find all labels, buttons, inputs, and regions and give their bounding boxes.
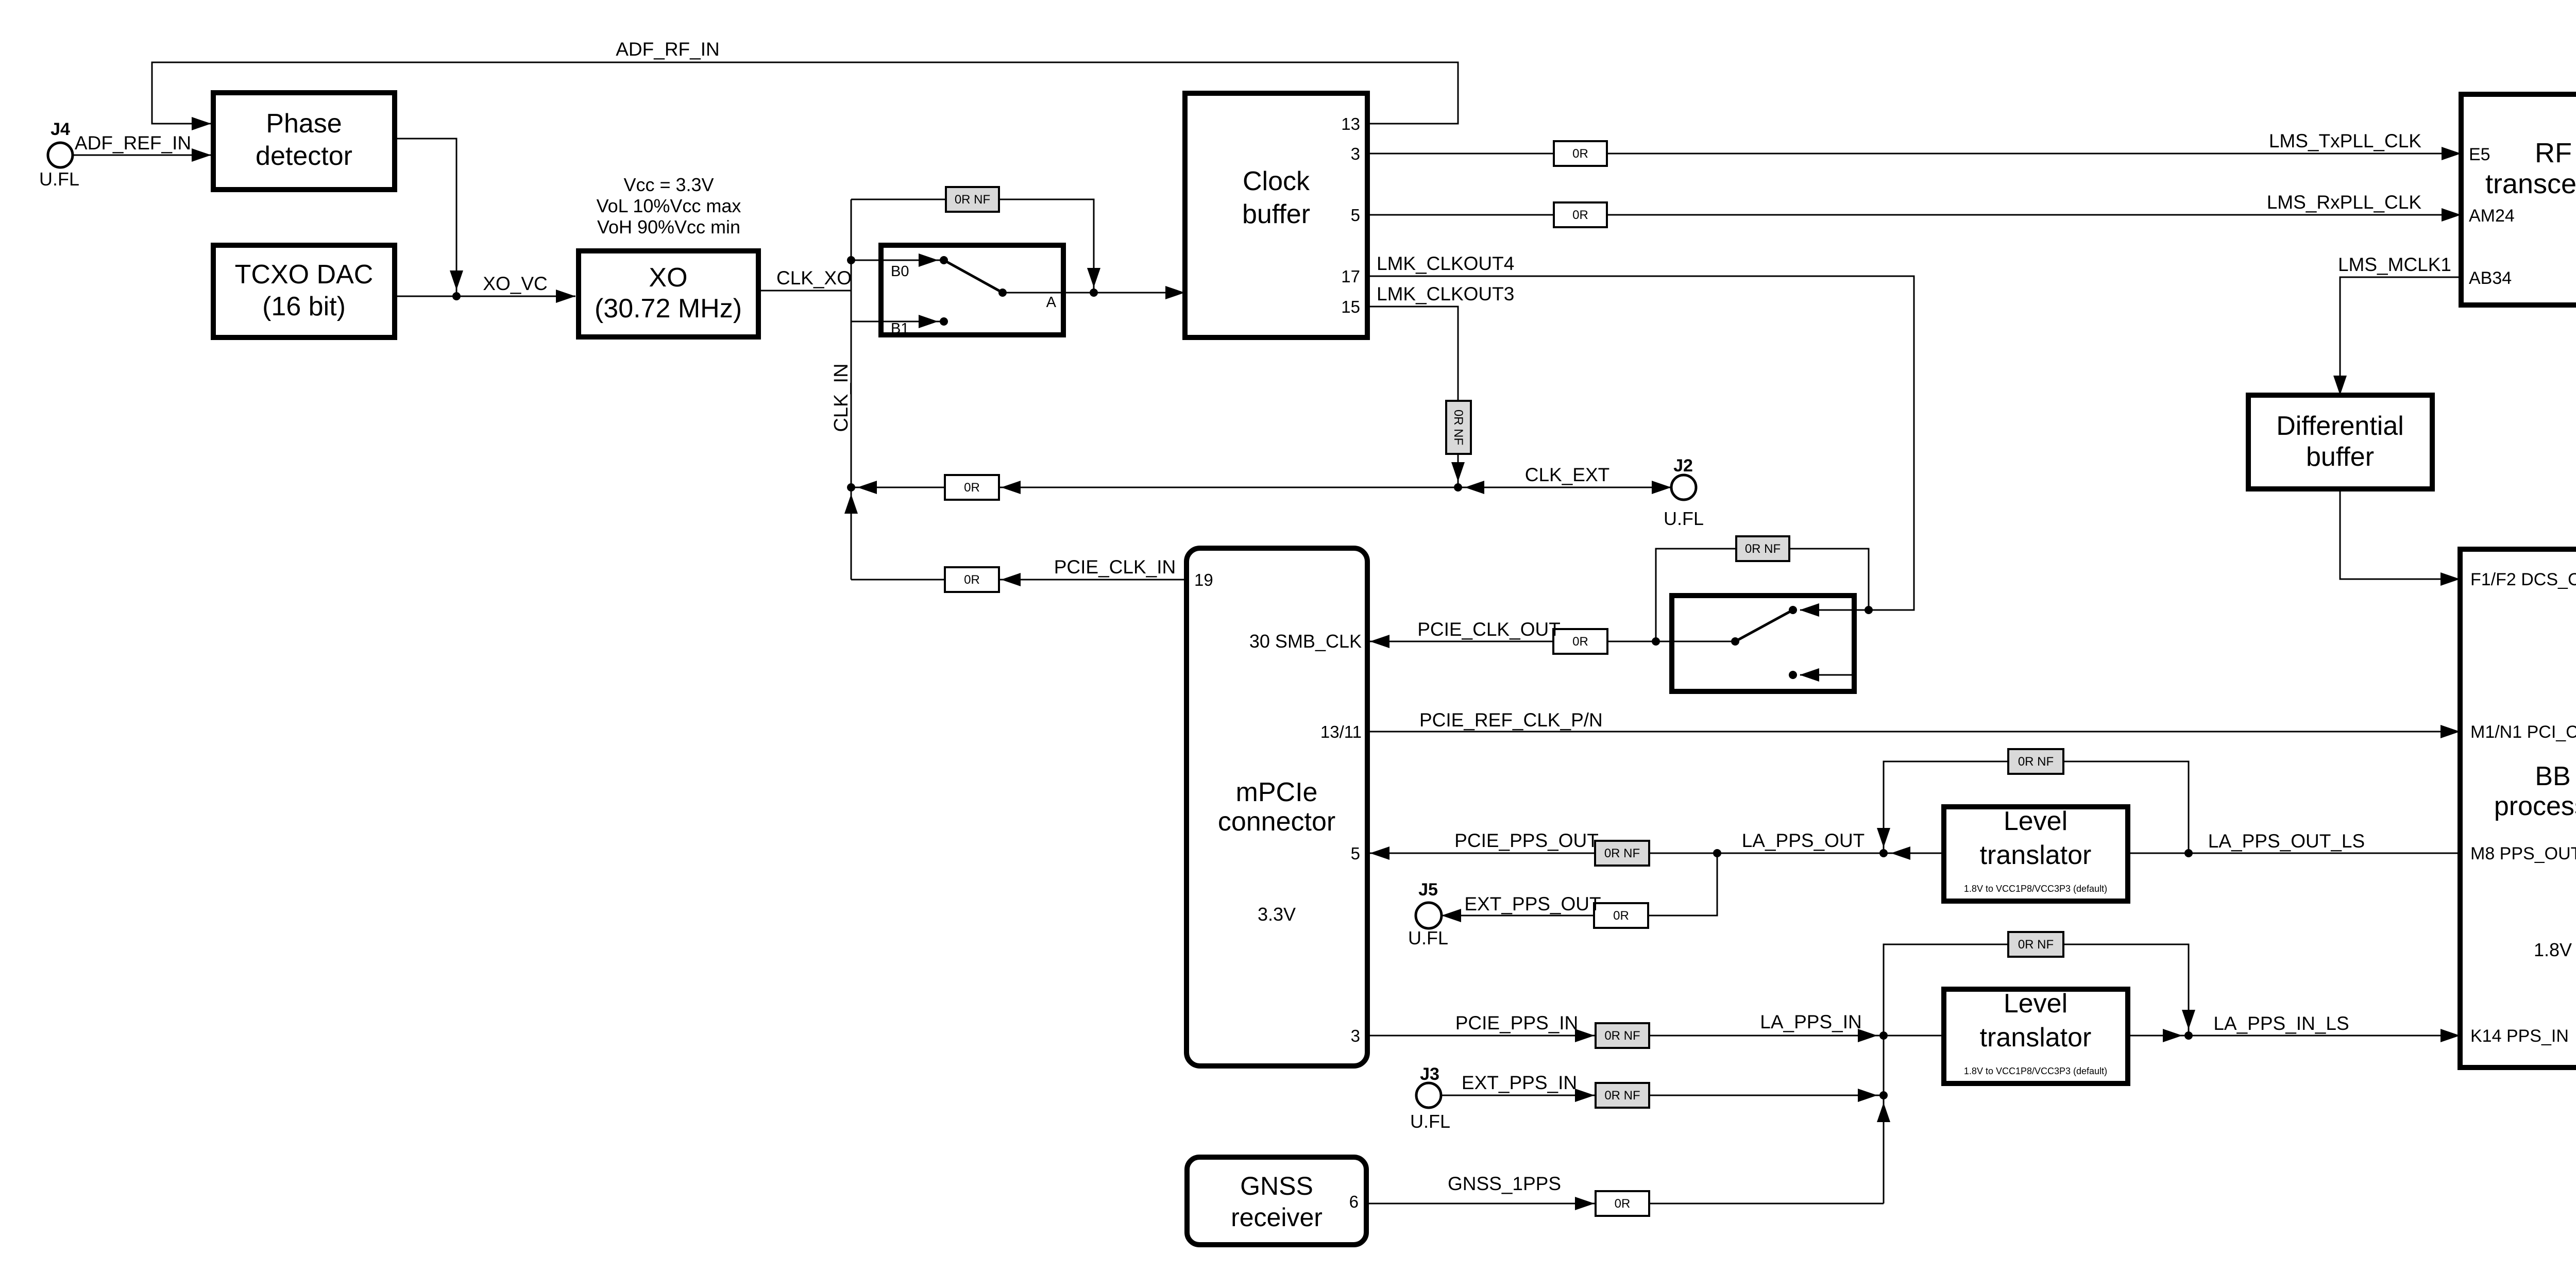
wire EXT_PPS_IN from J3 [1441, 1095, 1595, 1096]
wire PPS combine vertical rail [1883, 1036, 1885, 1204]
wire arrow Phase detector output down to XO_VC [450, 270, 463, 290]
node junction SW2 bypass top [1865, 606, 1873, 614]
svg-text:ADF_REF_IN: ADF_REF_IN [75, 132, 191, 154]
node junction LMK_CLKOUT3 on CLK_EXT [1454, 483, 1462, 492]
svg-text:mPCIe: mPCIe [1236, 777, 1318, 807]
wire bypass of SW1 through 0R NF [851, 199, 1094, 293]
svg-text:U.FL: U.FL [1664, 508, 1704, 529]
resistor R6 0R on EXT_PPS_OUT [1594, 903, 1648, 928]
wire arrow SW1 bypass down [1087, 268, 1100, 287]
wire SW2 lower contact stub [1800, 674, 1854, 676]
wire arrow LA_PPS_OUT into junction [1891, 846, 1910, 860]
wire LMS_RxPLL_CLK from Clock buffer pin 5 to RF transceiver AM24 [1368, 214, 2461, 216]
svg-text:TCXO DAC: TCXO DAC [235, 260, 374, 290]
node junction SW2 bypass on PCIE_CLK_OUT [1652, 637, 1660, 646]
svg-text:B1: B1 [891, 320, 909, 337]
svg-text:GNSS: GNSS [1240, 1172, 1313, 1200]
connector J3 U.FL circle [1416, 1083, 1441, 1108]
svg-text:0R: 0R [1613, 909, 1629, 923]
svg-text:M8 PPS_OUT: M8 PPS_OUT [2470, 844, 2576, 863]
wire arrow LMS_MCLK1 into Differential buffer [2333, 376, 2347, 395]
svg-text:3: 3 [1351, 1026, 1360, 1045]
op-amp U1 Phase detector block [213, 93, 395, 190]
resistor R10 0R NF bypass of SW2 [1736, 536, 1789, 561]
wire arrow bypass t1 down to junction [1877, 828, 1890, 848]
node junction LA_PPS_IN bypass left [1879, 1031, 1888, 1040]
wire arrow SW1 B1 contact [919, 315, 938, 328]
svg-text:Differential: Differential [2276, 411, 2404, 441]
node SW2 lower contact dot [1789, 671, 1797, 679]
wire arrow EXT_PPS_IN into resistor R14 [1575, 1089, 1595, 1102]
resistor R7 0R on GNSS_1PPS [1596, 1191, 1649, 1216]
svg-text:EXT_PPS_OUT: EXT_PPS_OUT [1464, 893, 1601, 914]
wire Differential buffer output to BB processor F1/F2 [2340, 489, 2460, 579]
wire arrow into SW2 lower contact [1800, 668, 1819, 682]
wire arrow CLK_EXT into J2 [1652, 481, 1671, 494]
wire arrow into Phase detector ADF_REF_IN input [192, 148, 211, 162]
wire SW1 blade [944, 260, 1003, 293]
resistor R13 0R NF on PCIE_PPS_IN [1596, 1023, 1649, 1048]
svg-text:3.3V: 3.3V [1258, 904, 1296, 925]
op-amp U10 GNSS receiver block [1187, 1157, 1366, 1245]
wire arrow PCIE_REF_CLK into BB processor M1/N1 [2441, 725, 2460, 738]
svg-text:transceiver: transceiver [2485, 168, 2576, 199]
wire SW1 output A to Clock buffer [1003, 292, 1185, 294]
svg-text:PCIE_PPS_IN: PCIE_PPS_IN [1455, 1012, 1579, 1033]
wire PCIE_PPS_IN / LA_PPS_IN line [1368, 1035, 1943, 1037]
wire PCIE_REF_CLK_P/N from mPCIe 13/11 to BB processor M1/N1 [1368, 731, 2460, 733]
svg-text:XO: XO [649, 263, 687, 293]
wire LA_PPS_OUT_LS from Level translator 1 to BB processor M8 [2129, 853, 2460, 854]
svg-text:J2: J2 [1673, 456, 1693, 476]
connector J4 U.FL circle [48, 143, 73, 167]
wire EXT_PPS_OUT branch to J5 [1442, 853, 1717, 916]
svg-text:AB34: AB34 [2469, 268, 2512, 288]
svg-text:13: 13 [1341, 114, 1360, 133]
connector J2 U.FL circle [1671, 475, 1696, 500]
wire arrow DCS_CLK into BB processor F1/F2 [2441, 572, 2460, 586]
svg-text:processor: processor [2494, 791, 2576, 821]
svg-text:0R NF: 0R NF [955, 193, 990, 207]
svg-text:buffer: buffer [1242, 199, 1310, 229]
svg-text:15: 15 [1341, 297, 1360, 316]
svg-text:LA_PPS_IN_LS: LA_PPS_IN_LS [2213, 1013, 2349, 1034]
svg-text:1.8V: 1.8V [2534, 939, 2572, 960]
svg-text:Vcc = 3.3V: Vcc = 3.3V [623, 174, 714, 195]
op-amp U9 Level translator 2 block [1944, 989, 2128, 1083]
svg-text:0R NF: 0R NF [1604, 1029, 1640, 1043]
wire XO_VC from TCXO DAC to XO [397, 296, 575, 297]
svg-text:J4: J4 [50, 120, 70, 139]
node SW2 upper contact dot [1789, 606, 1797, 614]
node junction EXT_PPS_IN on PPS rail [1879, 1091, 1888, 1099]
wire arrow EXT_PPS_OUT into J5 [1442, 909, 1461, 922]
wire arrow PCIE_CLK_IN up to CLK_EXT junction [844, 494, 858, 514]
svg-text:E5: E5 [2469, 145, 2490, 164]
resistor R14 0R NF on EXT_PPS_IN [1596, 1083, 1649, 1108]
wire bypass of Level translator 2 through 0R NF [1884, 944, 2189, 1036]
wire LMK_CLKOUT4 from Clock buffer pin 17 to SW2 [1368, 276, 1914, 610]
op-amp J1 mPCIe connector block [1187, 548, 1367, 1066]
svg-text:LMS_TxPLL_CLK: LMS_TxPLL_CLK [2269, 130, 2421, 151]
wire CLK_IN vertical rail [851, 199, 852, 580]
wire arrow LMK_CLKOUT3 down to CLK_EXT [1451, 462, 1465, 482]
svg-text:J5: J5 [1418, 880, 1438, 900]
wire arrow LMS_TxPLL_CLK into RF transceiver [2442, 147, 2461, 160]
wire SW1 B0 input [851, 260, 944, 261]
svg-text:RF: RF [2535, 138, 2572, 168]
svg-text:U.FL: U.FL [1408, 927, 1448, 948]
node junction EXT_PPS_OUT branch [1713, 849, 1721, 857]
node junction CLK_XO / B0 [847, 256, 855, 264]
svg-text:U.FL: U.FL [1410, 1111, 1450, 1132]
svg-text:(16 bit): (16 bit) [262, 292, 346, 321]
svg-text:0R NF: 0R NF [1604, 846, 1640, 860]
svg-text:Level: Level [2004, 806, 2067, 836]
wire LMS_MCLK1 from RF transceiver AB34 to Differential buffer [2340, 277, 2461, 395]
svg-text:13/11: 13/11 [1320, 722, 1362, 741]
wire SW2 blade [1735, 610, 1793, 641]
wire GNSS_1PPS after resistor [1649, 1203, 1884, 1205]
svg-text:VoL 10%Vcc max: VoL 10%Vcc max [597, 195, 741, 216]
svg-text:U.FL: U.FL [39, 168, 79, 190]
op-amp U6 Differential buffer block [2248, 395, 2432, 489]
op-amp U4 Clock buffer block [1185, 93, 1367, 337]
wire arrow translator 2 output into junction [2163, 1029, 2182, 1042]
svg-text:VoH 90%Vcc min: VoH 90%Vcc min [597, 216, 740, 238]
svg-text:0R NF: 0R NF [2018, 938, 2054, 952]
svg-text:0R NF: 0R NF [1604, 1089, 1640, 1103]
svg-text:0R: 0R [1572, 635, 1588, 649]
wire arrow EXT_PPS_IN into junction [1858, 1089, 1877, 1102]
svg-text:6: 6 [1349, 1192, 1359, 1211]
wire bypass of Level translator 1 through 0R NF [1884, 761, 2189, 853]
resistor R5 0R on PCIE_CLK_OUT [1553, 629, 1607, 654]
wire arrow LMS_RxPLL_CLK into RF transceiver [2442, 208, 2461, 222]
svg-text:LA_PPS_IN: LA_PPS_IN [1760, 1011, 1861, 1032]
svg-text:CLK_XO: CLK_XO [776, 267, 852, 289]
wire ADF_REF_IN from J4 to Phase detector [73, 155, 211, 156]
wire LA_PPS_IN_LS from Level translator 2 to BB processor K14 [2129, 1035, 2460, 1037]
wire ADF_RF_IN net from Clock buffer pin 13 to Phase detector [152, 62, 1458, 124]
resistor R12 0R NF bypass of Level translator 1 [2008, 749, 2063, 774]
svg-text:0R: 0R [964, 481, 980, 495]
wire arrow PCIE_CLK_OUT into mPCIe pin 30 [1370, 635, 1389, 648]
op-amp U8 Level translator 1 block [1944, 807, 2128, 901]
svg-text:J3: J3 [1420, 1064, 1439, 1084]
svg-text:1.8V to VCC1P8/VCC3P3 (default: 1.8V to VCC1P8/VCC3P3 (default) [1964, 1066, 2107, 1076]
resistor R2 0R on LMS_RxPLL_CLK [1554, 202, 1607, 227]
svg-text:CLK_IN: CLK_IN [831, 363, 852, 432]
transistor SW2 PCIe clock switch box [1672, 596, 1854, 691]
svg-text:M1/N1 PCI_CLK_P/N: M1/N1 PCI_CLK_P/N [2470, 722, 2576, 742]
node junction LA_PPS_IN_LS bypass right [2184, 1031, 2193, 1040]
svg-text:Phase: Phase [266, 109, 342, 139]
node junction CLK_EXT on CLK_IN rail [847, 483, 855, 492]
wire PCIE_CLK_OUT from SW2 pivot to mPCIe pin 30 [1370, 641, 1735, 642]
svg-text:LA_PPS_OUT_LS: LA_PPS_OUT_LS [2208, 831, 2365, 852]
svg-text:30 SMB_CLK: 30 SMB_CLK [1249, 631, 1362, 652]
wire LMS_TxPLL_CLK from Clock buffer pin 3 to RF transceiver E5 [1368, 153, 2461, 155]
svg-text:F1/F2 DCS_CLK_P/N: F1/F2 DCS_CLK_P/N [2470, 570, 2576, 589]
svg-text:detector: detector [256, 141, 352, 171]
wire arrow into Clock buffer input [1165, 286, 1185, 299]
svg-text:translator: translator [1980, 1023, 2092, 1053]
svg-text:connector: connector [1218, 807, 1335, 837]
svg-text:0R: 0R [1572, 208, 1588, 222]
svg-text:1.8V to VCC1P8/VCC3P3 (default: 1.8V to VCC1P8/VCC3P3 (default) [1964, 884, 2107, 894]
resistor R9 0R NF on LMK_CLKOUT3 vertical [1446, 401, 1471, 454]
resistor R4 0R on PCIE_CLK_IN [945, 567, 999, 592]
wire arrow PCIE_PPS_OUT into mPCIe pin 5 [1370, 846, 1389, 860]
resistor R1 0R on LMS_TxPLL_CLK [1554, 141, 1607, 166]
node SW2 pivot dot [1731, 637, 1739, 646]
node junction XO_VC [452, 292, 461, 300]
node SW1 pivot dot [998, 289, 1007, 297]
svg-text:3: 3 [1351, 144, 1360, 163]
wire LMK_CLKOUT3 from Clock buffer pin 15 down to CLK_EXT [1368, 307, 1458, 487]
wire CLK_XO from XO to CLK_IN vertical [758, 290, 851, 292]
svg-text:PCIE_CLK_IN: PCIE_CLK_IN [1054, 556, 1176, 578]
wire arrow LA_PPS_IN_LS into BB processor K14 [2441, 1029, 2460, 1042]
svg-text:PCIE_CLK_OUT: PCIE_CLK_OUT [1417, 619, 1561, 640]
resistor R3 0R on CLK_EXT [945, 475, 999, 500]
svg-text:GNSS_1PPS: GNSS_1PPS [1448, 1173, 1561, 1194]
node SW1 B1 contact dot [940, 317, 948, 326]
transistor SW1 clock input switch box [881, 245, 1063, 335]
wire PCIE_PPS_OUT / LA_PPS_OUT line [1370, 853, 1943, 854]
wire arrow GNSS_1PPS into resistor R7 [1575, 1197, 1595, 1210]
svg-text:ADF_RF_IN: ADF_RF_IN [616, 39, 719, 60]
svg-text:0R NF: 0R NF [2018, 755, 2054, 769]
svg-text:translator: translator [1980, 840, 2092, 870]
svg-text:0R: 0R [1615, 1197, 1631, 1211]
wire arrow PCIE_PPS_IN into resistor R13 [1575, 1029, 1595, 1042]
svg-text:0R: 0R [1572, 147, 1588, 161]
op-amp U3 XO oscillator block [579, 251, 758, 337]
wire bypass of SW2 through 0R NF [1656, 549, 1869, 641]
svg-text:5: 5 [1351, 844, 1360, 863]
svg-text:(30.72 MHz): (30.72 MHz) [595, 294, 742, 324]
resistor R11 0R NF on PCIE_PPS_OUT [1595, 841, 1649, 866]
svg-text:EXT_PPS_IN: EXT_PPS_IN [1462, 1072, 1577, 1093]
svg-text:PCIE_PPS_OUT: PCIE_PPS_OUT [1454, 830, 1599, 851]
wire PCIE_CLK_IN from mPCIe pin 19 [851, 579, 1186, 581]
wire GNSS_1PPS from GNSS receiver pin 6 [1366, 1203, 1595, 1205]
wire arrow PPS rail up into EXT_PPS_IN junction [1877, 1103, 1890, 1122]
node junction SW1 bypass on output [1090, 289, 1098, 297]
op-amp U5 RF transceiver block [2461, 94, 2576, 305]
op-amp U2 TCXO DAC block [213, 245, 395, 337]
svg-text:LMK_CLKOUT3: LMK_CLKOUT3 [1377, 283, 1514, 304]
op-amp U7 BB processor block [2460, 549, 2576, 1067]
wire arrow into Phase detector top input [192, 117, 211, 130]
svg-text:Level: Level [2004, 989, 2067, 1019]
svg-text:XO_VC: XO_VC [483, 273, 547, 294]
node SW1 B0 contact dot [940, 256, 948, 264]
svg-text:BB: BB [2535, 761, 2570, 791]
svg-text:LMS_MCLK1: LMS_MCLK1 [2338, 254, 2451, 275]
wire arrow bypass t2 down into junction [2182, 1010, 2195, 1029]
svg-text:17: 17 [1341, 267, 1360, 286]
wire SW1 B1 input [851, 321, 944, 323]
svg-text:0R NF: 0R NF [1451, 410, 1465, 445]
svg-text:0R: 0R [964, 573, 980, 587]
wire arrow CLK_EXT into CLK_IN rail [857, 481, 877, 494]
svg-text:19: 19 [1194, 570, 1213, 589]
svg-text:B0: B0 [891, 263, 909, 280]
svg-text:LMK_CLKOUT4: LMK_CLKOUT4 [1377, 253, 1514, 274]
svg-text:receiver: receiver [1231, 1203, 1323, 1232]
svg-text:CLK_EXT: CLK_EXT [1525, 464, 1610, 485]
svg-text:A: A [1046, 294, 1057, 311]
svg-text:LMS_RxPLL_CLK: LMS_RxPLL_CLK [2267, 192, 2422, 213]
connector J5 U.FL circle [1416, 903, 1442, 928]
wire arrow CLK_EXT into junction [1465, 481, 1484, 494]
node junction LA_PPS_OUT_LS bypass right [2184, 849, 2193, 857]
wire EXT_PPS_IN after resistor to junction [1649, 1095, 1884, 1096]
node junction LA_PPS_OUT bypass left [1879, 849, 1888, 857]
resistor R15 0R NF bypass of Level translator 2 [2008, 932, 2063, 957]
wire arrow SW1 B0 contact [919, 253, 938, 267]
wire Phase detector output to XO_VC junction [397, 139, 456, 296]
svg-text:0R NF: 0R NF [1745, 542, 1781, 556]
wire CLK_EXT from J2 to CLK_IN rail [851, 487, 1671, 488]
resistor R8 0R NF bypass of SW1 [946, 187, 999, 212]
svg-text:AM24: AM24 [2469, 206, 2515, 226]
wire arrow CLK_EXT into resistor R3 [1001, 481, 1021, 494]
wire arrow PCIE_CLK_IN into resistor R4 [1001, 573, 1021, 586]
wire arrow LA_PPS_IN into junction [1858, 1029, 1877, 1042]
svg-text:LA_PPS_OUT: LA_PPS_OUT [1742, 830, 1865, 851]
svg-text:K14 PPS_IN: K14 PPS_IN [2470, 1026, 2569, 1046]
svg-text:PCIE_REF_CLK_P/N: PCIE_REF_CLK_P/N [1419, 709, 1603, 731]
svg-text:5: 5 [1351, 206, 1360, 225]
wire arrow XO_VC into XO [556, 290, 575, 303]
svg-text:Clock: Clock [1243, 166, 1310, 196]
wire arrow into SW2 upper contact [1800, 603, 1819, 617]
svg-text:buffer: buffer [2306, 442, 2374, 472]
